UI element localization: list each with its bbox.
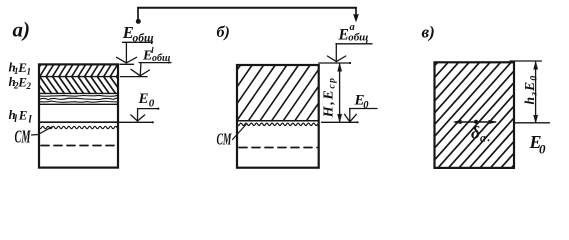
svg-text:Еlобщ: Еlобщ [142, 45, 170, 64]
ref line at block b top surface extended [319, 62, 350, 64]
svg-text:б): б) [217, 24, 230, 41]
CM pointer (block a) [32, 127, 53, 135]
block v: outline [435, 62, 515, 168]
dimension line h3E0 (block v) [535, 62, 537, 123]
svg-text:Е0: Е0 [354, 93, 370, 111]
block a: boundary layer1/layer2 [39, 76, 118, 78]
ref tick at block a top surface [120, 63, 134, 65]
arrow E^a_obshch down to block b top right corner [336, 43, 372, 45]
svg-text:hзЕ0: hзЕ0 [522, 75, 539, 105]
block a: outline [39, 64, 118, 167]
svg-text:δа: δа [471, 123, 486, 145]
CM pointer (block b) [233, 125, 247, 140]
block a: layer 2 hatch \\ (h2E2) [39, 77, 118, 94]
arrow E^l_obshch down to layer1/2 boundary [139, 62, 171, 64]
svg-text:h2Е2: h2Е2 [9, 74, 32, 91]
svg-text:Еаобщ: Еаобщ [338, 22, 369, 44]
block a: boundary below layer2 [39, 92, 118, 94]
block b: hatch /// [237, 65, 319, 121]
arrow E_obshch down to block a top [123, 41, 153, 43]
block b: CM wavy surface [237, 123, 318, 125]
block a: CM wavy surface [39, 126, 117, 128]
block b: bottom of hatch boundary [237, 120, 319, 122]
ref line at delta_a depth (block v) [514, 122, 550, 124]
block b: outline [237, 65, 319, 168]
block a: thin intermediate wavy layer lines [39, 94, 118, 97]
svg-text:Еобщ: Еобщ [122, 23, 154, 44]
svg-text:Е0: Е0 [529, 132, 547, 157]
svg-text:Е0: Е0 [138, 91, 155, 110]
junction dot [136, 19, 141, 24]
wire: right drop with down arrow [355, 8, 357, 15]
svg-text:hlЕl: hlЕl [9, 107, 33, 125]
ref tick at layer1/2 boundary extended [121, 76, 148, 78]
ref line at E0 level (block a) [119, 121, 153, 123]
block v: hatch /// [435, 62, 515, 168]
ref line at CM surface (block b) [322, 121, 358, 123]
block a: layer 1 hatch /// (h1E1) [39, 64, 118, 76]
dimension line H,E_sr (block b) [339, 64, 341, 122]
block a: boundary at bottom of layer l (E0 level) [39, 121, 118, 123]
block b: dashed line in CM [239, 147, 318, 149]
svg-text:Н,Еср: Н,Еср [322, 76, 338, 118]
svg-text:СМ: СМ [217, 129, 233, 148]
svg-text:а): а) [13, 18, 31, 42]
arrow E0 (block a) down to E0 level [138, 108, 159, 110]
wire: top connector [138, 7, 356, 9]
delta_a double arrow [455, 121, 496, 123]
block a: dashed line in CM [41, 145, 117, 147]
svg-text:в): в) [422, 23, 435, 42]
arrow E0 (block b) down to CM surface level [350, 108, 377, 110]
delta_a center dot [474, 120, 478, 124]
svg-text:СМ: СМ [15, 127, 32, 147]
ref line at block v top surface extended [510, 60, 542, 62]
wire: left drop to junction [137, 8, 139, 19]
